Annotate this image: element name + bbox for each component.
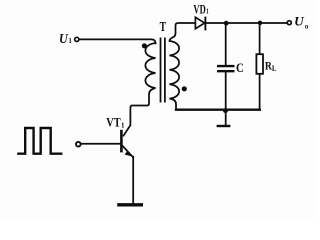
svg-text:1: 1 [206,7,209,16]
svg-text:T: T [160,19,167,34]
svg-text:L: L [272,64,277,73]
svg-text:VT: VT [106,116,120,130]
svg-text:U: U [59,31,69,46]
svg-text:1: 1 [69,38,73,45]
svg-text:o: o [305,23,309,31]
svg-text:U: U [294,15,305,29]
svg-text:VD: VD [193,3,205,17]
svg-text:1: 1 [121,121,125,129]
svg-text:C: C [236,61,244,75]
